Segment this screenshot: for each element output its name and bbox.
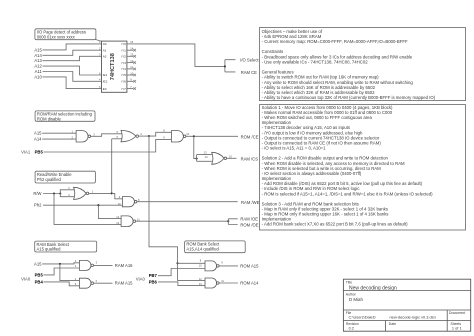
svg-text:ROM A15: ROM A15 — [240, 263, 259, 268]
svg-text:A13: A13 — [34, 58, 42, 63]
svg-text:A15: A15 — [34, 261, 42, 266]
svg-text:RAM A16: RAM A16 — [115, 263, 133, 268]
svg-text:RAM /CS: RAM /CS — [241, 156, 259, 161]
svg-text:New decoding design: New decoding design — [349, 286, 397, 292]
svg-text:1 of 1: 1 of 1 — [452, 326, 462, 331]
svg-text:A15,A14 qualified: A15,A14 qualified — [186, 247, 219, 252]
svg-text:Document: Document — [449, 311, 465, 315]
svg-text:C:\Users\DaleD: C:\Users\DaleD — [349, 315, 376, 320]
svg-text:PB5: PB5 — [35, 149, 44, 154]
svg-text:- Ability to have a continuous: - Ability to have a continuous top 32K o… — [262, 95, 436, 100]
svg-text:- Use only available ICs - 74H: - Use only available ICs - 74HCT138, 74H… — [262, 59, 369, 64]
svg-text:RAM A15: RAM A15 — [115, 281, 133, 286]
svg-text:VIA1: VIA1 — [21, 149, 31, 154]
svg-text:A10: A10 — [34, 74, 42, 79]
svg-text:0.2: 0.2 — [349, 325, 354, 330]
svg-text:ROM /OE: ROM /OE — [240, 222, 258, 227]
svg-text:/E2: /E2 — [103, 80, 108, 84]
svg-text:A2: A2 — [103, 55, 107, 59]
svg-text:/Y3: /Y3 — [121, 61, 126, 65]
svg-text:A1: A1 — [103, 48, 107, 52]
svg-text:R/W: R/W — [33, 191, 41, 196]
svg-text:A14: A14 — [34, 53, 42, 58]
svg-text:/Y4: /Y4 — [121, 67, 126, 71]
svg-text:RAM CE: RAM CE — [241, 70, 257, 75]
svg-text:PB4: PB4 — [35, 279, 44, 284]
svg-text:/Y6: /Y6 — [121, 80, 126, 84]
svg-text:D Miah: D Miah — [349, 297, 363, 302]
svg-text:/Y7: /Y7 — [121, 87, 126, 91]
svg-text:E3: E3 — [103, 87, 107, 91]
svg-text:PB7: PB7 — [149, 273, 158, 278]
svg-text:I/O Select: I/O Select — [240, 57, 259, 62]
svg-text:A12: A12 — [34, 64, 42, 69]
svg-text:- ROM is selected if A15=1, A1: - ROM is selected if A15=1, A14=1, /DIS=… — [262, 191, 434, 196]
svg-text:A15 qualified: A15 qualified — [37, 247, 62, 252]
svg-text:- Current memory map: ROM=C000: - Current memory map: ROM=C000-FFFF, RAM… — [262, 39, 408, 44]
svg-text:Title: Title — [346, 281, 352, 285]
svg-text:RAM /OE: RAM /OE — [240, 217, 258, 222]
svg-text:ROM disable: ROM disable — [37, 117, 62, 122]
svg-text:A15: A15 — [34, 47, 42, 52]
svg-text:VIA0: VIA0 — [21, 276, 31, 281]
svg-text:Ph2 qualified: Ph2 qualified — [37, 177, 62, 182]
svg-text:/Y1: /Y1 — [121, 48, 126, 52]
svg-text:A0: A0 — [103, 42, 107, 46]
svg-text:PB6: PB6 — [149, 280, 158, 285]
svg-text:RAM /WE: RAM /WE — [241, 200, 260, 205]
svg-text:0000 01xx xxxx xxxx: 0000 01xx xxxx xxxx — [37, 34, 76, 39]
svg-text:- Add ROM bank select X7,X0 as: - Add ROM bank select X7,X0 as 6522 port… — [262, 222, 409, 227]
svg-text:ROM /CE: ROM /CE — [241, 134, 259, 139]
svg-text:74HCT138: 74HCT138 — [110, 53, 116, 80]
svg-text:/Y5: /Y5 — [121, 73, 126, 77]
svg-text:Ph2: Ph2 — [34, 203, 42, 208]
svg-text:ROM A14: ROM A14 — [240, 281, 259, 286]
svg-text:PB5: PB5 — [35, 272, 44, 277]
svg-text:A11: A11 — [35, 69, 43, 74]
svg-text:/Y2: /Y2 — [121, 55, 126, 59]
svg-text:- IO select is A15, A11 = 0, A: - IO select is A15, A11 = 0, A10=1 — [262, 146, 327, 151]
svg-text:VIA0: VIA0 — [136, 276, 146, 281]
svg-text:Author: Author — [346, 293, 357, 297]
svg-text:A14: A14 — [34, 137, 42, 142]
svg-text:A15: A15 — [34, 131, 42, 136]
svg-text:/E1: /E1 — [103, 73, 108, 77]
svg-text:/Y0: /Y0 — [121, 42, 126, 46]
svg-text:new-decode-logic v0.3.dsn: new-decode-logic v0.3.dsn — [390, 315, 436, 320]
svg-text:Date: Date — [389, 322, 396, 326]
